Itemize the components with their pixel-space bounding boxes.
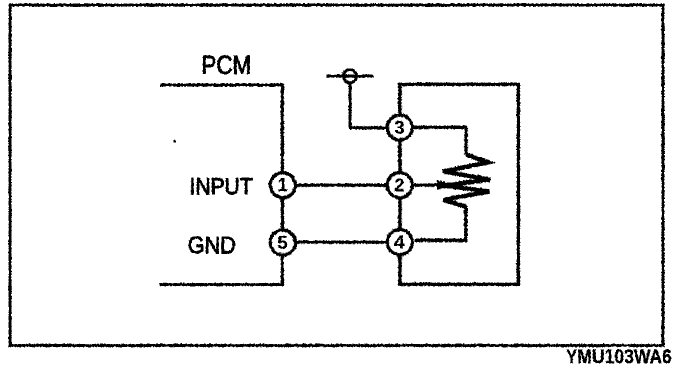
svg-text:1: 1 bbox=[277, 174, 287, 195]
svg-text:5: 5 bbox=[277, 232, 287, 253]
svg-text:YMU103WA6: YMU103WA6 bbox=[566, 345, 672, 367]
svg-text:4: 4 bbox=[394, 231, 405, 252]
svg-text:INPUT: INPUT bbox=[189, 173, 252, 199]
svg-text:2: 2 bbox=[394, 174, 404, 195]
svg-text:3: 3 bbox=[394, 117, 404, 138]
svg-text:GND: GND bbox=[188, 231, 236, 258]
svg-text:PCM: PCM bbox=[201, 51, 251, 80]
